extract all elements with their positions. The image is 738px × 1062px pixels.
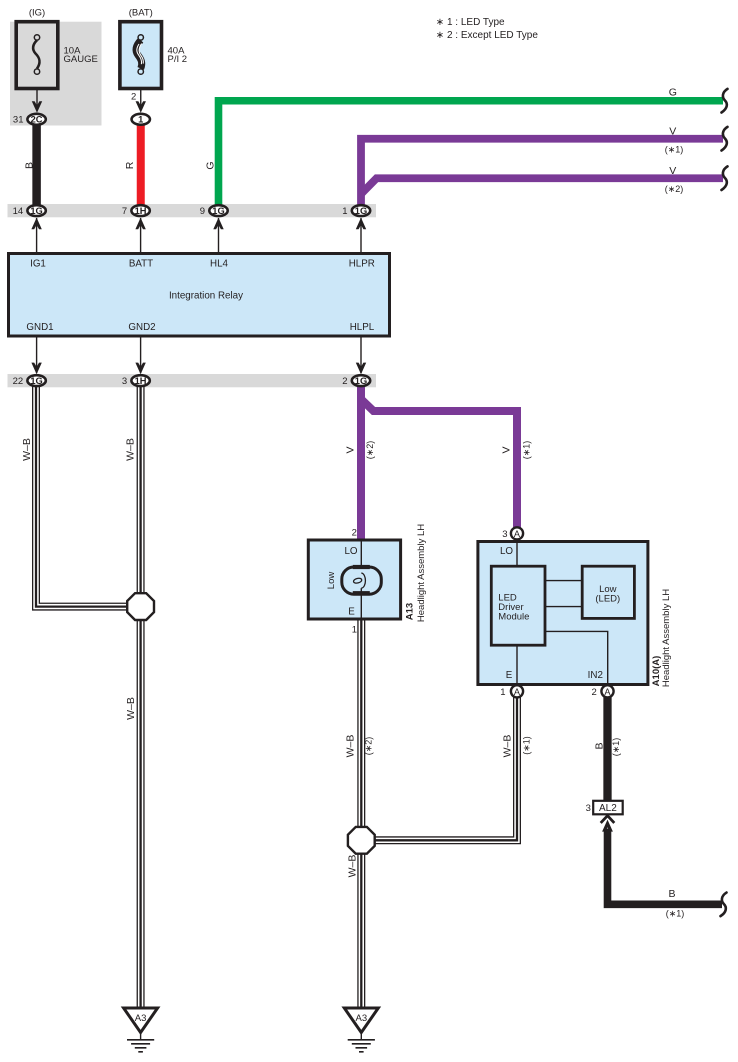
svg-text:(∗2): (∗2) xyxy=(665,184,684,194)
LED driver module inner box xyxy=(491,566,545,645)
svg-text:Low: Low xyxy=(326,572,337,590)
svg-text:HLPR: HLPR xyxy=(349,258,375,269)
svg-text:E: E xyxy=(348,606,355,617)
svg-text:31: 31 xyxy=(13,115,24,126)
svg-text:1G: 1G xyxy=(212,206,224,216)
svg-text:V: V xyxy=(501,446,513,453)
svg-text:G: G xyxy=(204,161,216,169)
svg-text:BATT: BATT xyxy=(129,258,153,269)
svg-text:(∗1): (∗1) xyxy=(611,738,621,757)
svg-text:W–B: W–B xyxy=(345,735,357,758)
svg-text:A: A xyxy=(514,529,521,539)
break symbol B wire bottom xyxy=(721,893,727,917)
svg-text:W–B: W–B xyxy=(125,697,137,720)
svg-text:1: 1 xyxy=(500,687,505,698)
junction block gray background (IG fuse area) xyxy=(10,22,102,126)
pin lines fuse BAT to connector xyxy=(140,75,142,111)
link lines LED driver to Low(LED) xyxy=(545,580,582,582)
svg-text:(IG): (IG) xyxy=(29,7,45,18)
arrows up under band1 xyxy=(31,218,41,230)
junction octagon right xyxy=(348,827,375,854)
svg-text:AL2: AL2 xyxy=(599,803,617,814)
svg-text:∗ 2 : Except LED Type: ∗ 2 : Except LED Type xyxy=(436,30,539,41)
svg-text:V: V xyxy=(669,126,676,138)
svg-text:R: R xyxy=(124,161,136,169)
svg-text:B: B xyxy=(23,162,35,169)
arrows down above band2 xyxy=(31,363,41,375)
svg-text:1H: 1H xyxy=(135,206,147,216)
wire R red (fuse BAT to 1H) xyxy=(137,119,145,210)
double chevron under AL2 xyxy=(601,816,615,832)
svg-text:HL4: HL4 xyxy=(210,258,229,269)
svg-text:1G: 1G xyxy=(355,376,367,386)
connector band 1G/1H row top xyxy=(8,204,377,217)
svg-text:14: 14 xyxy=(13,206,24,217)
svg-text:(BAT): (BAT) xyxy=(129,7,153,18)
svg-text:A: A xyxy=(514,687,521,697)
svg-text:W–B: W–B xyxy=(125,438,137,461)
svg-text:2: 2 xyxy=(592,687,597,698)
svg-text:B: B xyxy=(594,742,606,749)
fuse IG element xyxy=(33,40,39,68)
pin lines relay to band2 xyxy=(36,336,38,373)
wire V purple HLPL down to A13 xyxy=(357,383,365,540)
svg-text:E: E xyxy=(506,670,513,681)
svg-text:(∗1): (∗1) xyxy=(522,736,532,755)
connector circle A pin3 xyxy=(511,527,523,539)
svg-text:A13: A13 xyxy=(404,603,415,620)
svg-text:IN2: IN2 xyxy=(588,670,603,681)
svg-text:1H: 1H xyxy=(135,376,147,386)
svg-text:LO: LO xyxy=(500,546,513,557)
svg-text:W–B: W–B xyxy=(502,735,514,758)
pin line A10 E xyxy=(516,645,518,684)
svg-text:G: G xyxy=(669,87,677,99)
svg-text:A3: A3 xyxy=(135,1013,147,1024)
wire B black IN2 to AL2 xyxy=(603,694,611,801)
connector ovals band2 xyxy=(27,375,45,386)
break symbol V2 wire xyxy=(722,166,728,190)
svg-text:1: 1 xyxy=(352,624,357,635)
svg-text:GND1: GND1 xyxy=(26,322,53,333)
svg-text:GND2: GND2 xyxy=(128,322,155,333)
svg-text:1G: 1G xyxy=(30,376,42,386)
svg-text:1: 1 xyxy=(342,206,347,217)
wire W-B left column 22-1G to junction xyxy=(36,384,141,607)
connector circle A pin1 E xyxy=(511,685,523,697)
wire V purple branch (*1) to A10 pin 3 xyxy=(362,400,518,529)
svg-text:(∗1): (∗1) xyxy=(522,441,532,460)
svg-text:9: 9 xyxy=(200,206,205,217)
connector circle A pin2 IN2 xyxy=(601,685,613,697)
svg-text:3: 3 xyxy=(122,376,127,387)
svg-text:3: 3 xyxy=(502,529,507,540)
wire W-B column 3-1H down to ground A3 xyxy=(137,384,145,1008)
svg-text:IG1: IG1 xyxy=(30,258,46,269)
svg-text:3: 3 xyxy=(586,803,591,814)
wire W-B from A13 E down to ground A3 xyxy=(357,619,365,1008)
wire G green (HL4 to right edge) xyxy=(219,101,724,210)
headlight assembly LH box A13 xyxy=(308,540,400,619)
connector oval 2C xyxy=(27,114,45,125)
svg-text:Headlight Assembly LH: Headlight Assembly LH xyxy=(416,524,427,622)
svg-text:22: 22 xyxy=(13,376,24,387)
svg-text:(∗2): (∗2) xyxy=(365,441,375,460)
svg-text:P/I 2: P/I 2 xyxy=(168,54,188,65)
svg-text:Integration Relay: Integration Relay xyxy=(169,291,243,302)
connector oval 1 (BAT) xyxy=(132,114,150,125)
svg-text:2C: 2C xyxy=(31,115,43,125)
svg-text:1G: 1G xyxy=(355,206,367,216)
ground A3 right xyxy=(344,1008,378,1052)
junction octagon left xyxy=(127,593,154,620)
connector ovals band1 xyxy=(27,205,45,216)
svg-text:W–B: W–B xyxy=(21,438,33,461)
Low (LED) inner box xyxy=(582,566,634,618)
svg-text:2: 2 xyxy=(131,91,136,102)
svg-text:(∗1): (∗1) xyxy=(666,909,685,919)
svg-text:(∗2): (∗2) xyxy=(364,737,374,756)
pin lines band1 to relay xyxy=(36,218,38,254)
svg-text:B: B xyxy=(668,888,675,900)
svg-text:Module: Module xyxy=(498,611,529,622)
svg-text:2: 2 xyxy=(342,376,347,387)
svg-text:V: V xyxy=(669,165,676,177)
wire V purple (*2) (joins HLPR wire) xyxy=(362,178,724,193)
svg-text:W–B: W–B xyxy=(347,855,359,878)
svg-text:7: 7 xyxy=(122,206,127,217)
svg-text:∗ 1 : LED Type: ∗ 1 : LED Type xyxy=(436,17,505,28)
ground A3 left xyxy=(124,1008,158,1052)
svg-text:GAUGE: GAUGE xyxy=(64,54,98,65)
svg-text:A: A xyxy=(604,687,611,697)
svg-text:1: 1 xyxy=(138,115,143,125)
svg-text:(LED): (LED) xyxy=(595,594,620,605)
wire B black AL2 to right edge xyxy=(608,829,723,905)
svg-text:Headlight Assembly LH: Headlight Assembly LH xyxy=(661,589,672,687)
svg-text:HLPL: HLPL xyxy=(350,322,375,333)
bulb Low beam in A13 xyxy=(342,540,382,619)
pin line A10 LO xyxy=(516,542,518,567)
fuse box BAT xyxy=(120,22,162,89)
connector band 1G/1H row bottom xyxy=(8,374,377,387)
arrows down at fuse outputs xyxy=(32,101,42,113)
svg-text:LO: LO xyxy=(344,546,357,557)
svg-text:V: V xyxy=(345,446,357,453)
fusible link BAT element xyxy=(136,35,143,75)
integration relay box xyxy=(9,254,390,337)
svg-text:A3: A3 xyxy=(355,1013,367,1024)
fuse box IG xyxy=(16,22,58,89)
wire V purple (*1) (HLPR to right edge) xyxy=(361,139,723,206)
break symbol V1 wire xyxy=(722,127,728,151)
svg-text:(∗1): (∗1) xyxy=(665,144,684,154)
pin lines fuse IG to connector xyxy=(36,75,38,111)
svg-text:1G: 1G xyxy=(30,206,42,216)
connector AL2 xyxy=(593,801,623,815)
wire B black (fuse IG to 1G) xyxy=(32,119,41,210)
break symbol G wire xyxy=(722,89,728,113)
wire W-B from A10 E to junction xyxy=(361,697,517,840)
svg-text:2: 2 xyxy=(352,527,357,538)
headlight assembly LH box A10(A) xyxy=(478,542,648,685)
link line LED driver to IN2 xyxy=(545,631,608,684)
